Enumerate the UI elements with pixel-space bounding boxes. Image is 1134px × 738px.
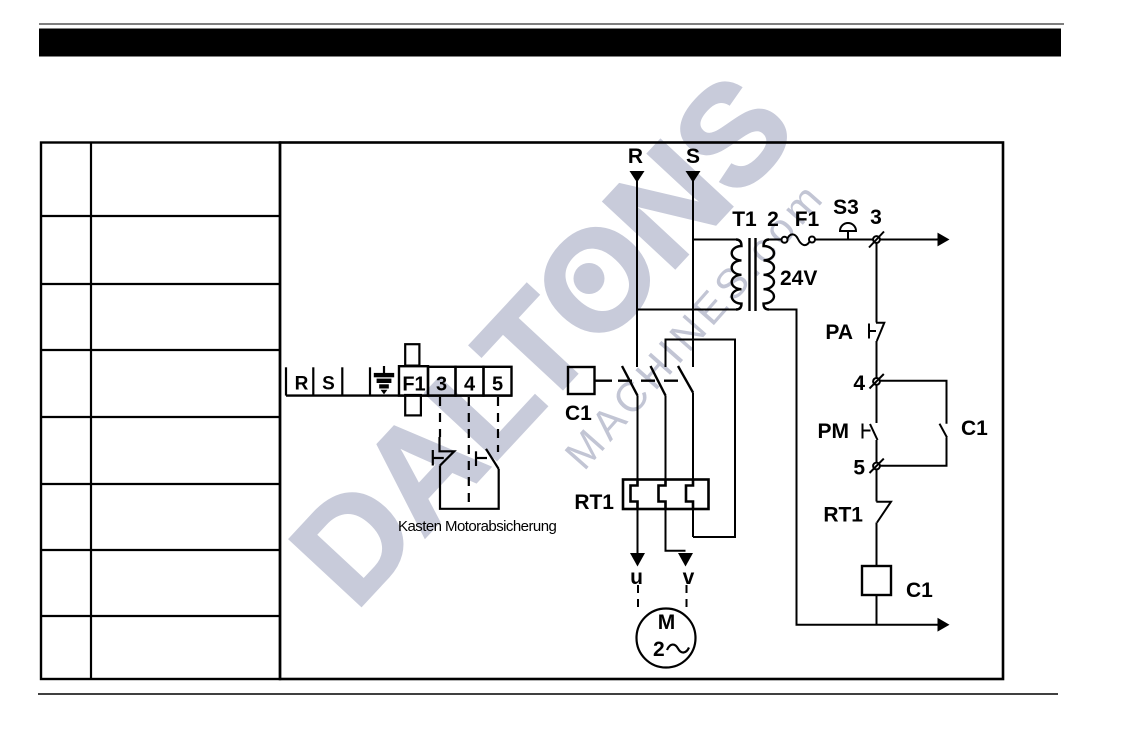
arrow v — [678, 553, 693, 567]
contact RT1 — [876, 502, 891, 523]
wire u lead — [637, 509, 639, 554]
fuse F1 cartridge — [405, 344, 421, 415]
wire pole2 to RT1 box — [665, 396, 667, 481]
svg-text:F1: F1 — [795, 208, 820, 231]
label 2~ — [653, 638, 689, 661]
svg-text:3: 3 — [436, 374, 447, 396]
wire secondary top to fuse — [769, 239, 781, 241]
svg-text:u: u — [630, 566, 643, 589]
wire S to transformer primary top — [693, 239, 736, 241]
svg-text:S: S — [686, 145, 700, 168]
float switch left — [433, 437, 454, 466]
svg-text:C1: C1 — [565, 402, 592, 425]
wire branch node4 right — [880, 381, 947, 424]
svg-text:5: 5 — [492, 374, 503, 396]
wire secondary bottom rail — [769, 310, 939, 625]
label PA — [825, 321, 853, 344]
svg-text:Kasten Motorabsicherung: Kasten Motorabsicherung — [398, 518, 556, 535]
wire S phase vertical — [692, 181, 694, 367]
svg-text:4: 4 — [853, 372, 865, 395]
svg-text:2: 2 — [653, 638, 665, 661]
fuse F1 control — [782, 234, 816, 245]
terminal strip dividers — [286, 367, 370, 395]
svg-text:PA: PA — [825, 321, 853, 344]
wire branch back to node 5 — [880, 438, 947, 466]
label u — [630, 566, 643, 589]
node 4 terminal — [870, 374, 884, 389]
label C1 main — [565, 402, 592, 425]
pushbutton PA — [869, 323, 884, 341]
svg-text:v: v — [683, 566, 695, 589]
label M — [658, 611, 676, 634]
wire fuse to node 3 — [815, 239, 873, 241]
wire coil to bottom rail — [876, 595, 878, 625]
svg-text:4: 4 — [464, 374, 476, 396]
label 4 — [853, 372, 865, 395]
svg-text:S: S — [322, 374, 335, 395]
arrow out right bottom — [938, 618, 950, 632]
dashed wire terminal 5 — [497, 397, 499, 452]
label T1 — [732, 208, 757, 231]
svg-text:S3: S3 — [833, 196, 859, 219]
terminal 4 label — [464, 374, 476, 396]
switch S3 — [840, 223, 856, 240]
svg-text:RT1: RT1 — [574, 491, 614, 514]
label 3 — [870, 206, 882, 229]
pin 2 label — [767, 208, 779, 231]
wire R phase vertical — [636, 181, 638, 367]
dashed motor lead u — [637, 585, 639, 613]
svg-text:RT1: RT1 — [823, 504, 863, 527]
terminal F1 label — [402, 374, 425, 396]
dashed wire terminal 3 — [439, 397, 441, 437]
svg-text:PM: PM — [818, 420, 850, 443]
svg-text:2: 2 — [767, 208, 779, 231]
contact C1 auxiliary — [940, 424, 948, 438]
svg-text:C1: C1 — [961, 417, 988, 440]
label RT1 relay — [574, 491, 614, 514]
label C1 coil — [906, 579, 933, 602]
wire v lead — [666, 509, 686, 551]
wire PA to node 4 — [876, 341, 878, 378]
terminal box 4 — [456, 367, 484, 396]
float switch box outline — [440, 466, 499, 509]
terminal 3 label — [436, 374, 447, 396]
svg-text:M: M — [658, 611, 676, 634]
svg-text:C1: C1 — [906, 579, 933, 602]
terminal box 5 — [484, 367, 512, 396]
label F1 — [795, 208, 820, 231]
terminal box 3 — [428, 367, 456, 396]
svg-text:F1: F1 — [402, 374, 425, 396]
label 24V — [780, 267, 817, 290]
node 5 terminal — [870, 459, 884, 473]
wire control rail node3 to PA — [876, 243, 878, 323]
svg-text:DALTONS: DALTONS — [261, 48, 821, 634]
svg-text:5: 5 — [853, 457, 865, 480]
svg-text:3: 3 — [870, 206, 882, 229]
arrow u — [630, 553, 645, 567]
wire node4 to PM — [876, 385, 878, 423]
wire node5 to RT1 contact — [876, 469, 878, 501]
thermal relay RT1 heaters — [623, 480, 709, 510]
label S3 — [833, 196, 859, 219]
wire node3 to arrow — [880, 239, 939, 241]
motor M — [637, 609, 696, 668]
node 3 terminal — [869, 232, 884, 248]
svg-text:T1: T1 — [732, 208, 757, 231]
terminal box F1 — [399, 366, 428, 395]
pushbutton PM — [863, 424, 878, 441]
coil C1 — [862, 566, 891, 595]
wire pole2 top loop — [666, 340, 736, 538]
contact C1 pole 1 — [622, 366, 638, 396]
contact C1 pole 2 — [651, 366, 666, 396]
wire pole1 to RT1 box — [637, 396, 639, 481]
label RT1 contact — [823, 504, 863, 527]
label 5 — [853, 457, 865, 480]
label C1 aux — [961, 417, 988, 440]
wire transformer primary bottom to R phase — [637, 309, 736, 311]
dashed motor lead v — [686, 585, 688, 610]
contact C1 pole 3 — [678, 366, 693, 393]
svg-text:24V: 24V — [780, 267, 817, 290]
transformer T1 — [732, 238, 774, 311]
wire pole3 to RT1 box — [692, 393, 694, 481]
terminal 5 label — [492, 374, 503, 396]
terminal S label — [322, 374, 335, 395]
mechanical link dashed — [595, 380, 681, 382]
svg-text:R: R — [295, 374, 309, 395]
svg-text:R: R — [628, 145, 643, 168]
ground earth symbol — [374, 366, 394, 394]
wire RT1 to coil — [876, 523, 878, 567]
label PM — [818, 420, 850, 443]
terminal R label — [295, 374, 309, 395]
label Kasten Motorabsicherung — [398, 518, 556, 535]
float switch right — [476, 449, 499, 469]
wire pole3 below RT1 — [692, 509, 694, 537]
terminal strip baseline — [286, 394, 512, 396]
arrow out right top — [938, 233, 950, 247]
node R supply label — [628, 145, 645, 183]
wire PM to node 5 — [876, 440, 878, 463]
label v — [683, 566, 695, 589]
node S supply label — [686, 145, 701, 183]
contactor C1 main link box — [568, 367, 595, 394]
dashed wire terminal 4 — [468, 397, 470, 507]
